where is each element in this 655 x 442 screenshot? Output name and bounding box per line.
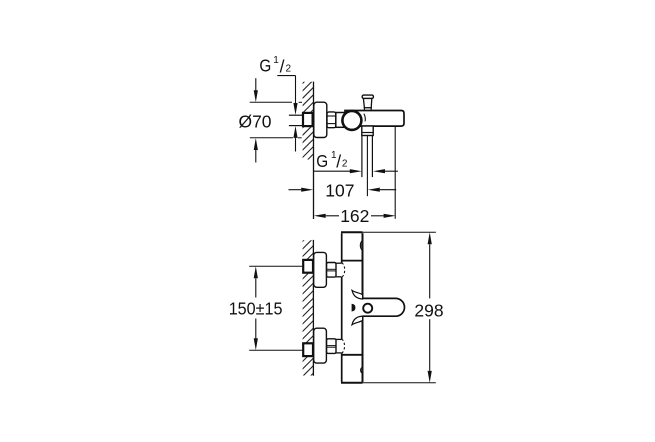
wall surface line (top view) (313, 82, 315, 219)
flow handle joint line (342, 354, 363, 356)
wall (side view, hatched) (302, 72, 314, 173)
upper union neck (336, 262, 342, 264)
label G 1/2 (shower outlet) (316, 150, 348, 172)
label G 1/2 (top-left) (259, 55, 291, 77)
temperature handle joint line (342, 260, 363, 262)
svg-text:2: 2 (342, 158, 348, 169)
shower outlet collar (362, 126, 373, 136)
supply / ext line lower (249, 349, 303, 351)
body top edge (341, 231, 363, 233)
body bottom edge (341, 382, 363, 384)
lower escutcheon (314, 328, 327, 363)
connector cylinder (336, 113, 352, 128)
spout base petal upper (352, 290, 363, 299)
svg-text:162: 162 (340, 206, 369, 226)
dimension 298 (363, 231, 436, 233)
spout base petal lower (352, 316, 363, 325)
svg-text:/: / (280, 57, 285, 77)
diameter 70 dimension arrows (255, 78, 257, 90)
escutcheon (side view) (314, 102, 327, 137)
upper square wall nut (303, 260, 313, 273)
wall union square nut (303, 113, 313, 126)
supply / ext line upper (249, 265, 303, 267)
spout anchor (filled) (352, 304, 356, 312)
svg-text:1: 1 (273, 55, 279, 66)
spout aerator circle (363, 304, 372, 313)
dimension 150 +/- 15 (254, 266, 258, 278)
mixer body (front view) left edge (341, 233, 343, 263)
body shoulder arc (364, 114, 365, 122)
svg-text:G: G (316, 151, 328, 171)
wall surface line (front view) (312, 240, 314, 376)
mixer body (side view) (345, 111, 404, 127)
svg-text:G: G (259, 56, 271, 76)
lower square wall nut (303, 343, 313, 356)
svg-text:2: 2 (286, 63, 292, 74)
dimension 107 (289, 189, 302, 191)
lower union hex nut (327, 339, 336, 354)
diverter knob on top of body (362, 95, 373, 111)
wall (front view, hatched) (302, 230, 314, 385)
lower inlet hidden arc (dashed) (342, 339, 345, 353)
tub spout (seen from above) (363, 298, 405, 316)
connection hex nut (side view) (327, 112, 336, 128)
body right edge (362, 233, 364, 298)
upper union hex nut (327, 263, 336, 278)
supply pipe through wall (289, 114, 303, 116)
dimension ext lines for diameter 70 (250, 101, 292, 103)
tube centre / ext line for 107 (366, 136, 368, 197)
svg-text:/: / (336, 152, 341, 172)
thermostat handle (circle, side view) (342, 111, 361, 130)
shower outlet tube (361, 136, 363, 177)
svg-text:298: 298 (414, 301, 443, 321)
leader from G1/2 to pipe (277, 75, 295, 77)
svg-text:107: 107 (325, 181, 354, 201)
upper escutcheon (314, 252, 327, 287)
svg-text:150±15: 150±15 (229, 298, 283, 318)
handle grip notch (lower) (361, 367, 363, 374)
handle grip notch (upper) (360, 240, 363, 251)
G1/2 outlet dimension (314, 170, 350, 172)
upper inlet hidden arc (dashed) (342, 263, 345, 277)
svg-text:Ø70: Ø70 (239, 111, 272, 131)
dimension 162 (394, 126, 396, 219)
lower union neck (336, 338, 342, 340)
